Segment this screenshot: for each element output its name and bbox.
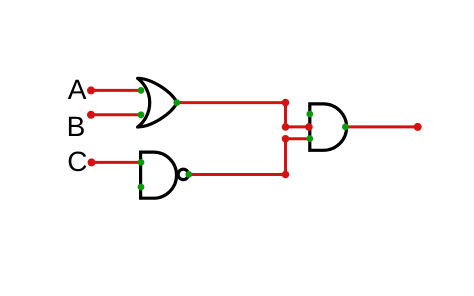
wire OR output horizontal — [177, 101, 286, 104]
svg-text:A: A — [68, 74, 87, 105]
wire vertical from NAND output corner — [284, 139, 287, 175]
wire input A — [91, 89, 141, 92]
nand-gate U2 — [141, 152, 189, 198]
junction dot input B endpoint — [87, 111, 95, 119]
wire horizontal into AND gate edge — [286, 125, 309, 128]
junction dot OR output corner — [282, 99, 290, 107]
pin AND output — [342, 124, 349, 131]
wire input C — [92, 161, 142, 164]
junction dot circuit output endpoint — [414, 123, 422, 131]
pin NAND input 1 — [138, 159, 145, 166]
junction dot NAND output corner — [282, 171, 290, 179]
wire NAND output horizontal — [189, 173, 286, 176]
wire horizontal to AND lower input — [286, 137, 310, 140]
pin NAND output — [185, 171, 192, 178]
pin NAND input 2 — [138, 184, 145, 191]
junction dot input A endpoint — [87, 86, 95, 94]
svg-text:B: B — [67, 111, 86, 142]
svg-text:C: C — [67, 146, 87, 177]
junction dot corner lower — [282, 135, 290, 143]
wire input B — [91, 113, 141, 116]
junction dot wire end on AND edge — [305, 123, 313, 131]
junction dot corner upper — [282, 123, 290, 131]
pin OR output — [173, 99, 180, 106]
wire vertical from OR output corner — [284, 103, 287, 127]
or-gate U1 — [138, 78, 178, 127]
pin AND input 1 — [306, 111, 313, 118]
junction dot input C endpoint — [88, 158, 96, 166]
pin AND input 2 — [306, 135, 313, 142]
pin OR input 1 — [138, 87, 145, 94]
and-gate U3 — [310, 104, 347, 150]
wire AND output — [345, 125, 417, 128]
nand-gate output bubble — [178, 169, 188, 179]
pin OR input 2 — [138, 111, 145, 118]
